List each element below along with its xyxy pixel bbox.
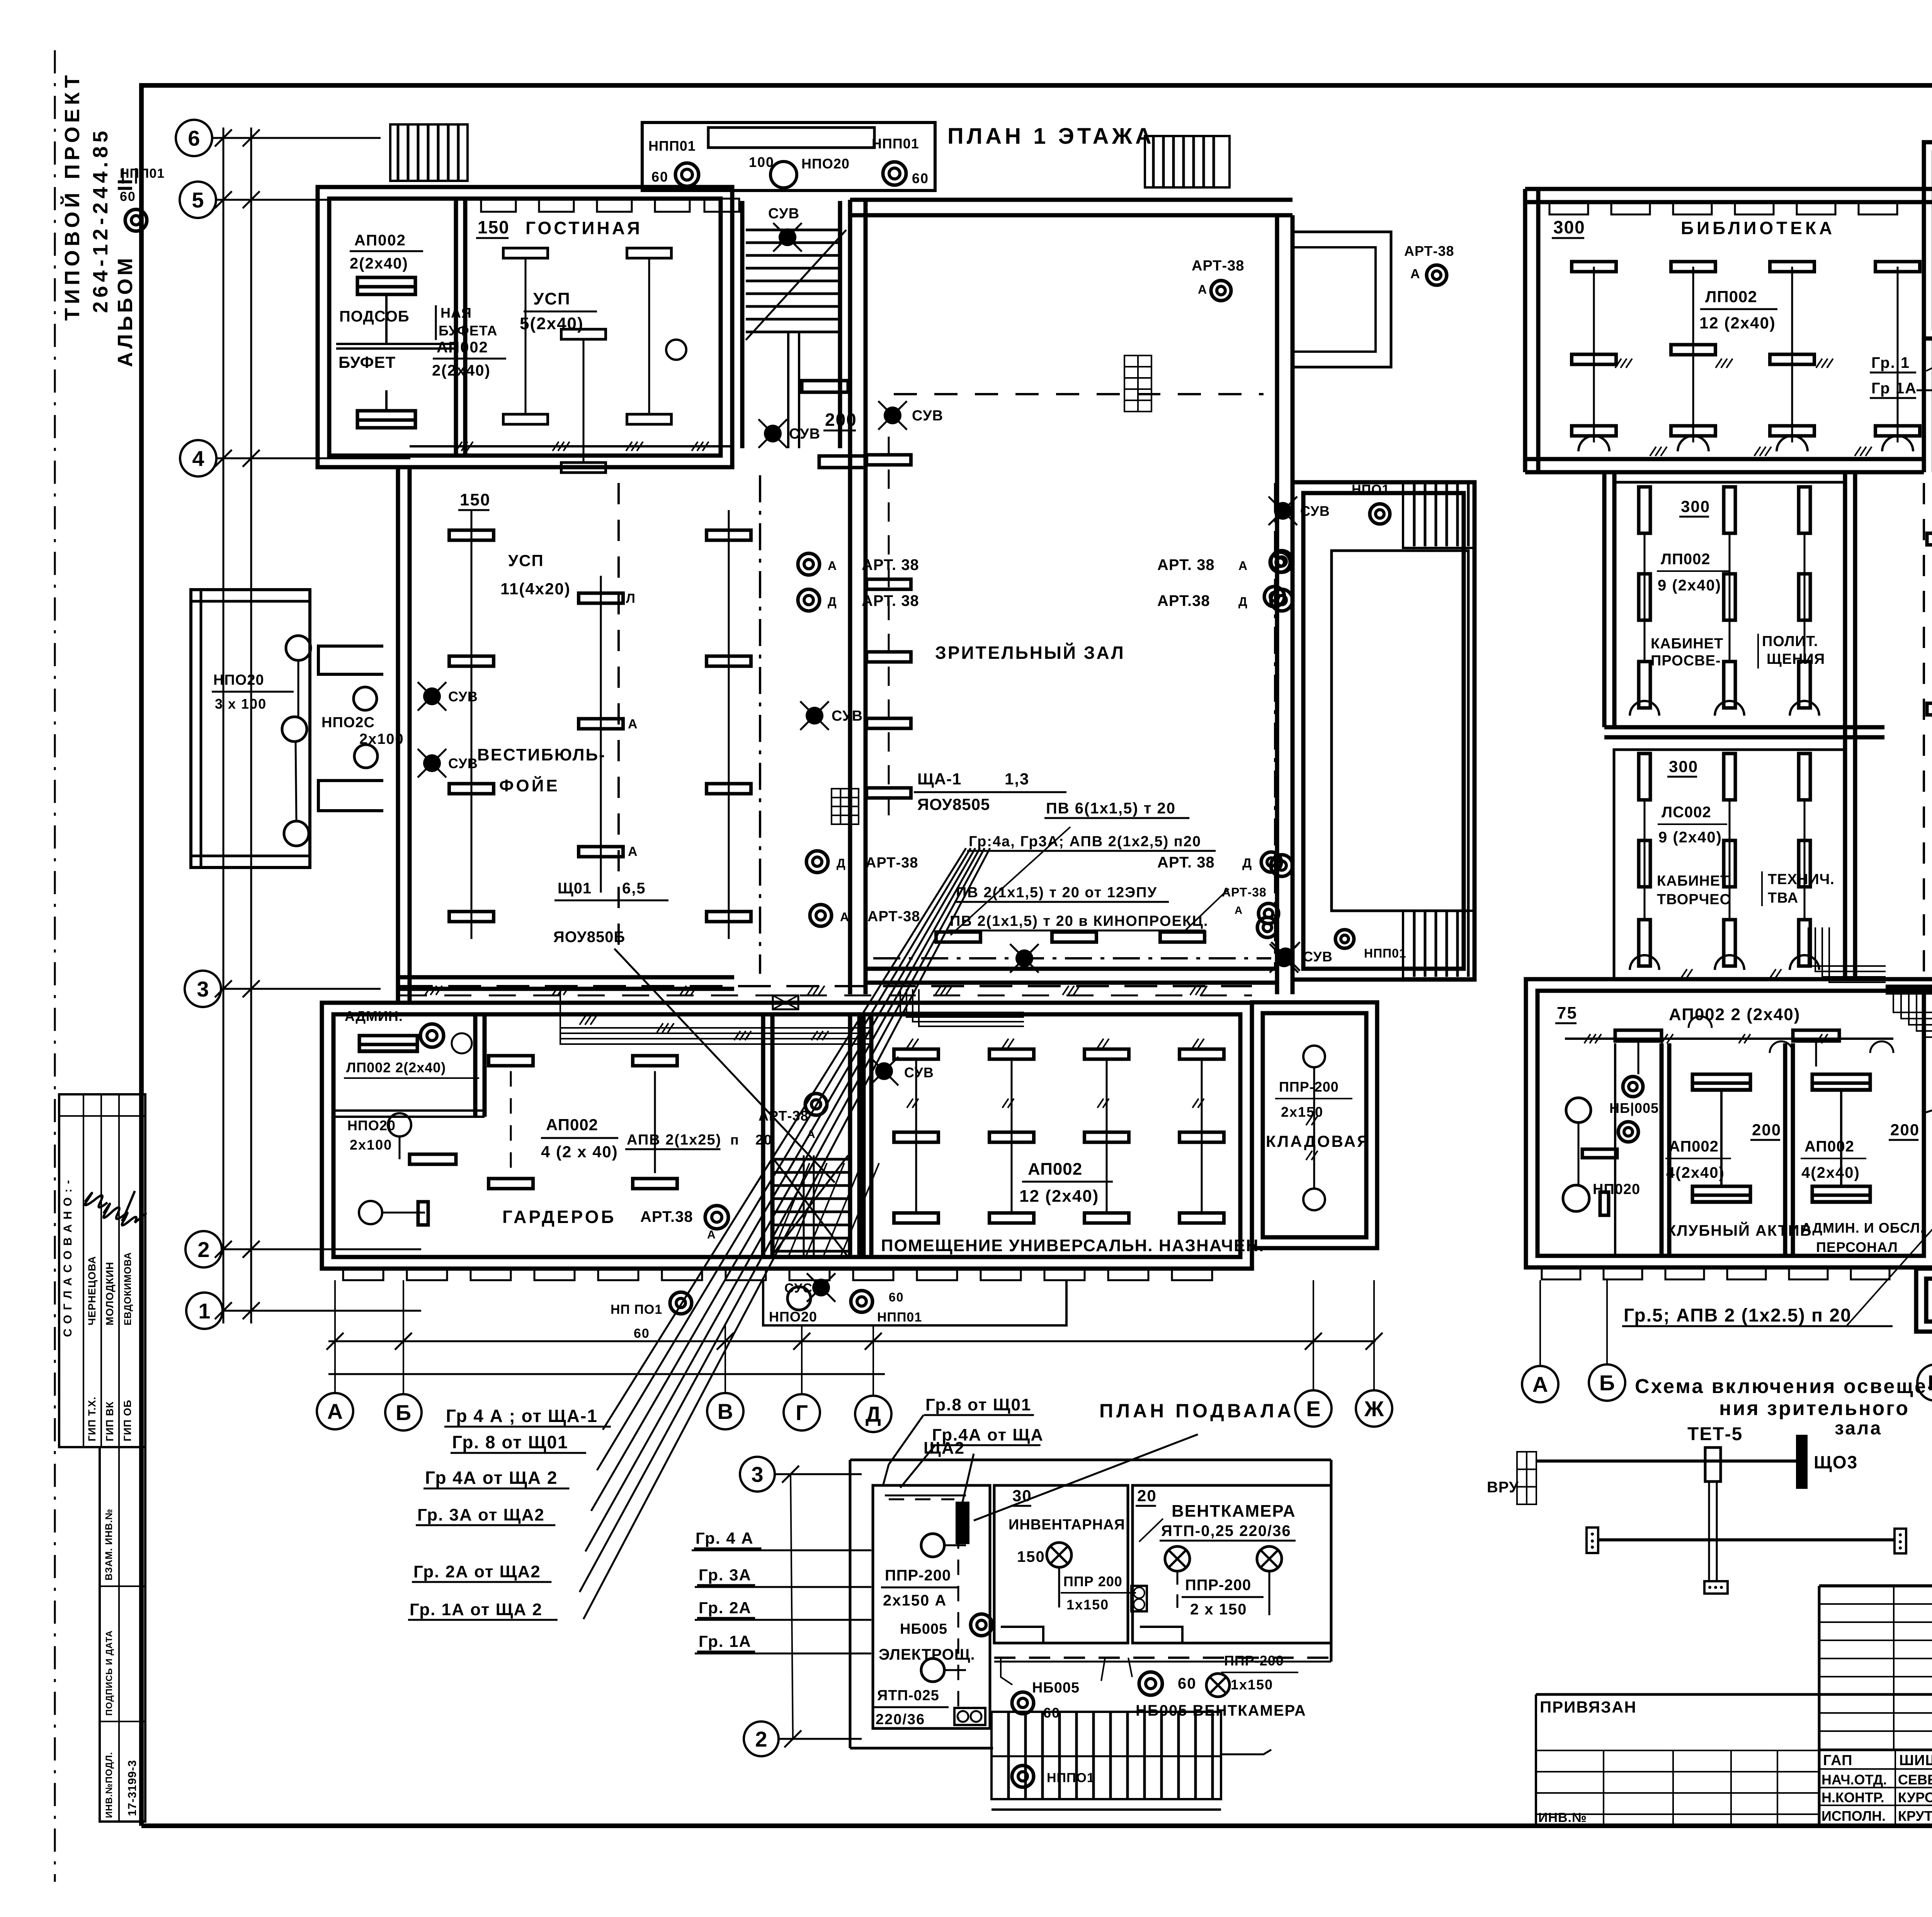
- svg-text:НАЧ.ОТД.: НАЧ.ОТД.: [1821, 1772, 1887, 1788]
- svg-text:п: п: [730, 1132, 740, 1148]
- svg-text:Гр:4а, Гр3А; АПВ 2(1х2,5) п20: Гр:4а, Гр3А; АПВ 2(1х2,5) п20: [969, 833, 1201, 850]
- кабинет просвещения fixtures vertical bars: [1639, 487, 1650, 533]
- signature scribbles: [85, 1193, 107, 1207]
- axis bubble А plan1: [317, 1393, 353, 1429]
- svg-text:СУВ: СУВ: [768, 206, 799, 222]
- svg-text:Б: Б: [396, 1400, 411, 1425]
- svg-text:АП002: АП002: [354, 232, 406, 249]
- axis bubble Б plan1: [385, 1394, 422, 1431]
- bottom wall tabs plan2 block: [1542, 1269, 1580, 1279]
- svg-text:АП002: АП002: [437, 339, 488, 356]
- svg-text:А: А: [707, 1228, 716, 1241]
- svg-text:200: 200: [825, 410, 857, 430]
- plan1 bottom dimension lines: [328, 1340, 1376, 1342]
- block B: vestibule left outer wall: [396, 467, 400, 1003]
- fixtures along auditorium left wall: [867, 455, 911, 465]
- svg-text:Гр. 3А от ЩА2: Гр. 3А от ЩА2: [417, 1505, 545, 1524]
- room инвентарная: [994, 1485, 1128, 1643]
- block D: top stair walls: [730, 201, 735, 448]
- svg-text:ТВА: ТВА: [1768, 890, 1798, 906]
- panel grid symbol right-top: [1124, 356, 1151, 412]
- niche jog upper: [318, 646, 383, 674]
- svg-text:ТВОРЧЕС: ТВОРЧЕС: [1657, 891, 1731, 908]
- svg-text:Гр. 1: Гр. 1: [1871, 354, 1910, 371]
- svg-text:Схема включения освеще-: Схема включения освеще-: [1635, 1375, 1932, 1398]
- callout diagonals to basement: [883, 1415, 923, 1486]
- svg-text:А: А: [1238, 559, 1248, 573]
- drawing frame: [141, 85, 1932, 448]
- svg-text:АЛЬБОМ: АЛЬБОМ: [114, 255, 137, 367]
- corridor plan2 dashed + fixtures: [1923, 483, 1925, 974]
- svg-text:КРУТОВА: КРУТОВА: [1898, 1808, 1932, 1824]
- svg-text:Гр. 8 от Щ01: Гр. 8 от Щ01: [452, 1432, 568, 1452]
- svg-text:ВРУ: ВРУ: [1487, 1479, 1519, 1496]
- axis bubble 1: [186, 1293, 223, 1329]
- svg-text:60: 60: [120, 189, 136, 204]
- partition гардероб right / stair: [761, 1014, 765, 1257]
- left terrace at vestibule: [191, 590, 310, 867]
- svg-text:100: 100: [749, 154, 774, 170]
- svg-text:НП ПО1: НП ПО1: [611, 1302, 662, 1317]
- svg-text:НПО2С: НПО2С: [321, 714, 375, 731]
- svg-text:3: 3: [197, 977, 209, 1001]
- labels АРТ.38 left lower pair: [806, 851, 828, 873]
- svg-text:ЩЕНИЯ: ЩЕНИЯ: [1767, 651, 1825, 667]
- библиотека wall tabs: [1549, 202, 1588, 214]
- room электрощитовая: [873, 1485, 990, 1728]
- schema end panels: [1587, 1527, 1598, 1553]
- svg-text:АРТ. 38: АРТ. 38: [862, 592, 919, 609]
- right wing porch bottom hatch: [1403, 911, 1475, 978]
- basement corridor line: [994, 1657, 1331, 1659]
- stair bottom center: [771, 1158, 848, 1161]
- svg-text:5: 5: [192, 188, 204, 212]
- wiring meander near stair: [900, 989, 1024, 1012]
- svg-text:ПРИВЯЗАН: ПРИВЯЗАН: [1540, 1698, 1637, 1716]
- svg-text:150: 150: [478, 217, 510, 237]
- svg-text:ЯТП-0,25 220/36: ЯТП-0,25 220/36: [1161, 1522, 1291, 1539]
- harness from auditorium right wall to plan2: [1808, 927, 1886, 966]
- svg-text:НПО20: НПО20: [769, 1309, 817, 1325]
- stair diagonal hatch: [771, 1163, 810, 1257]
- svg-text:9 (2х40): 9 (2х40): [1658, 829, 1722, 846]
- basement axis bubble 2: [744, 1721, 779, 1756]
- svg-text:ГИП Т.Х.: ГИП Т.Х.: [86, 1397, 98, 1441]
- svg-text:ППР 200: ППР 200: [1063, 1573, 1122, 1589]
- СУВ dot top center: [884, 407, 901, 424]
- bottom entrance canopy: [763, 1280, 1066, 1325]
- svg-text:СУВ: СУВ: [1300, 503, 1330, 519]
- sig table small rows: [1819, 1603, 1932, 1605]
- svg-text:17-3199-3: 17-3199-3: [126, 1760, 139, 1816]
- axis bubble А plan2: [1522, 1366, 1558, 1402]
- привязан grid: [1536, 1750, 1819, 1751]
- svg-text:БУФЕТ: БУФЕТ: [338, 353, 396, 371]
- svg-text:2х100: 2х100: [359, 731, 404, 747]
- кладовая annex walls: [1252, 1002, 1377, 1248]
- svg-text:Гр.4А от ЩА: Гр.4А от ЩА: [932, 1425, 1044, 1444]
- svg-text:20: 20: [1137, 1487, 1157, 1505]
- svg-text:1: 1: [198, 1299, 210, 1323]
- svg-text:ГИП ВК: ГИП ВК: [104, 1401, 116, 1441]
- svg-text:СУВ: СУВ: [912, 408, 943, 424]
- svg-text:ния зрительного: ния зрительного: [1719, 1397, 1910, 1420]
- partition буфет|гостиная: [454, 199, 458, 456]
- dumbbells клубный актив: [1692, 1074, 1750, 1090]
- svg-text:Гр.5; АПВ 2 (1х2.5) п 20: Гр.5; АПВ 2 (1х2.5) п 20: [1624, 1305, 1852, 1326]
- кабинет просвещения walls: [1614, 482, 1845, 727]
- vestibule dashed route: [617, 483, 620, 958]
- svg-text:АРТ. 38: АРТ. 38: [862, 556, 919, 573]
- svg-text:Гр. 2А: Гр. 2А: [699, 1599, 752, 1617]
- svg-text:200: 200: [1752, 1121, 1781, 1139]
- svg-text:12 (2х40): 12 (2х40): [1699, 314, 1776, 332]
- svg-text:2 х 150: 2 х 150: [1190, 1601, 1247, 1618]
- svg-text:ГАРДЕРОБ: ГАРДЕРОБ: [502, 1207, 616, 1227]
- svg-text:СУВ: СУВ: [1303, 949, 1333, 964]
- panel bars ЩО2 ЩО3 hatched: [1886, 985, 1932, 995]
- СУВ dot top stair: [779, 228, 796, 246]
- svg-text:220/36: 220/36: [876, 1711, 925, 1728]
- svg-text:ЕВДОКИМОВА: ЕВДОКИМОВА: [122, 1252, 133, 1325]
- svg-text:НПП01: НПП01: [877, 1310, 922, 1325]
- diagonal feeder bundle: [603, 848, 966, 1430]
- svg-text:3 х 100: 3 х 100: [215, 696, 267, 712]
- svg-text:ПОДПИСЬ И ДАТА: ПОДПИСЬ И ДАТА: [104, 1630, 114, 1716]
- basement dashed route in электрощ: [885, 1495, 966, 1497]
- svg-text:АП002 2 (2х40): АП002 2 (2х40): [1669, 1005, 1800, 1024]
- fixture bars near stair: [802, 381, 848, 392]
- svg-text:Д: Д: [866, 1402, 881, 1426]
- stair annex bottom: [1916, 1269, 1932, 1332]
- svg-text:СУВ: СУВ: [448, 689, 478, 704]
- axis bubble Д plan1: [855, 1396, 891, 1432]
- svg-text:АП002: АП002: [546, 1116, 598, 1134]
- axis dimension verticals: [223, 128, 224, 1323]
- svg-text:5(2х40): 5(2х40): [520, 314, 584, 333]
- svg-text:ПОДСОБ: ПОДСОБ: [339, 308, 410, 325]
- svg-text:АРТ.38: АРТ.38: [640, 1208, 693, 1225]
- panel ЩОЗ filled bar: [1796, 1435, 1808, 1489]
- axis bubble 5: [180, 182, 216, 218]
- wall tabs гостиная top: [481, 199, 516, 212]
- svg-text:4 (2 х 40): 4 (2 х 40): [541, 1143, 618, 1161]
- axis bubble В plan1: [707, 1393, 743, 1429]
- wiring knot under vestibule: [560, 985, 869, 1028]
- svg-text:ЩА-1: ЩА-1: [917, 770, 961, 788]
- stair hatch top: [746, 229, 838, 231]
- svg-text:ПВ 2(1х1,5) т 20 от 12ЭПУ: ПВ 2(1х1,5) т 20 от 12ЭПУ: [956, 885, 1157, 901]
- электрощ lamps and texts: [921, 1534, 944, 1557]
- fixtures гостиная: 3 dumbbells: [503, 248, 548, 258]
- svg-text:С О Г Л А С О В А Н О : -: С О Г Л А С О В А Н О : -: [61, 1179, 74, 1337]
- svg-text:300: 300: [1681, 497, 1710, 515]
- terrace lamps НПО20 column: [286, 636, 311, 660]
- svg-text:75: 75: [1557, 1004, 1577, 1022]
- wiring harness between ЩО panels and kinoproj: [1893, 993, 1932, 1012]
- svg-text:А: А: [628, 717, 638, 731]
- svg-text:Гр 4 А ; от ЩА-1: Гр 4 А ; от ЩА-1: [446, 1406, 598, 1426]
- svg-text:Гр 4А от ЩА 2: Гр 4А от ЩА 2: [425, 1468, 558, 1488]
- библиотека fixtures 4 columns: [1572, 262, 1616, 272]
- svg-text:АРТ-38: АРТ-38: [759, 1108, 809, 1124]
- кладовая lamps: [1303, 1046, 1325, 1067]
- svg-text:150: 150: [460, 490, 490, 509]
- svg-text:ИНВ.№: ИНВ.№: [1538, 1810, 1587, 1825]
- plan1 entrance canopy top: [642, 122, 935, 191]
- svg-text:В: В: [718, 1399, 733, 1424]
- svg-text:А: А: [1235, 904, 1243, 916]
- svg-text:Щ01: Щ01: [558, 880, 592, 897]
- svg-text:НППО1: НППО1: [1047, 1771, 1095, 1785]
- svg-text:УСП: УСП: [533, 289, 571, 308]
- schema second bus: [1598, 1538, 1895, 1541]
- svg-text:ЯОУ850Б: ЯОУ850Б: [553, 929, 625, 946]
- svg-text:ИНВЕНТАРНАЯ: ИНВЕНТАРНАЯ: [1009, 1517, 1125, 1533]
- svg-text:АП002: АП002: [1804, 1138, 1854, 1155]
- svg-text:ГАП: ГАП: [1823, 1752, 1852, 1769]
- svg-text:АРТ-38: АРТ-38: [1222, 885, 1267, 899]
- fixtures bottom-left block: [1615, 1030, 1662, 1041]
- svg-text:60: 60: [889, 1290, 904, 1304]
- svg-text:НПО20: НПО20: [801, 156, 850, 172]
- svg-text:264-12-244.85: 264-12-244.85: [89, 127, 112, 313]
- title block outer lines: [1819, 1584, 1932, 1587]
- svg-text:А: А: [1532, 1372, 1548, 1397]
- svg-text:2х100: 2х100: [350, 1137, 392, 1153]
- plan2 bottom-left block walls: [1526, 979, 1932, 1267]
- svg-text:ЯОУ8505: ЯОУ8505: [917, 795, 990, 813]
- right wing inner room: [1332, 551, 1468, 911]
- svg-text:6,5: 6,5: [622, 880, 646, 897]
- svg-text:300: 300: [1669, 757, 1698, 776]
- fixtures vestibule: 3 columns of T-bars: [449, 530, 494, 540]
- svg-text:СУВ: СУВ: [448, 755, 478, 771]
- svg-text:ЛП002: ЛП002: [1705, 287, 1757, 306]
- corridor lamps row: [1139, 1672, 1162, 1695]
- svg-text:ВЕСТИБЮЛЬ-: ВЕСТИБЮЛЬ-: [477, 745, 606, 764]
- svg-text:ПВ 2(1х1,5) т 20 в КИНОПРОЕКЦ.: ПВ 2(1х1,5) т 20 в КИНОПРОЕКЦ.: [950, 913, 1208, 929]
- СУВ dot auditorium center-left: [806, 707, 823, 725]
- svg-text:АРТ-38: АРТ-38: [1192, 258, 1244, 274]
- partition подсобная: [336, 343, 456, 345]
- svg-text:60: 60: [1178, 1675, 1197, 1692]
- svg-text:20: 20: [755, 1132, 772, 1148]
- svg-text:30: 30: [1012, 1487, 1032, 1505]
- svg-text:А: А: [327, 1399, 343, 1424]
- svg-text:НАЯ: НАЯ: [440, 305, 472, 321]
- svg-text:Гр.8 от Щ01: Гр.8 от Щ01: [925, 1395, 1031, 1414]
- sig table column: [1893, 1586, 1895, 1750]
- svg-text:КЛУБНЫЙ АКТИВ: КЛУБНЫЙ АКТИВ: [1667, 1221, 1812, 1239]
- svg-text:9 (2х40): 9 (2х40): [1658, 577, 1721, 594]
- svg-text:СУВ: СУВ: [832, 708, 863, 724]
- svg-text:Н.КОНТР.: Н.КОНТР.: [1821, 1789, 1884, 1805]
- svg-text:2х150 А: 2х150 А: [883, 1592, 947, 1609]
- svg-text:БУФЕТА: БУФЕТА: [439, 323, 497, 338]
- axis bubble Б plan2: [1589, 1364, 1625, 1401]
- svg-text:ЧЕРНЕЦОВА: ЧЕРНЕЦОВА: [86, 1256, 98, 1325]
- svg-text:КУРОЧКИН: КУРОЧКИН: [1898, 1789, 1932, 1805]
- svg-text:ППР-200: ППР-200: [1279, 1079, 1339, 1095]
- vestibule bottom wall: [398, 975, 734, 980]
- svg-text:АРТ. 38: АРТ. 38: [1157, 556, 1215, 573]
- svg-text:ЛП002 2(2х40): ЛП002 2(2х40): [346, 1060, 446, 1075]
- svg-text:2(2х40): 2(2х40): [432, 362, 491, 379]
- svg-text:4: 4: [192, 446, 204, 471]
- svg-text:БИБЛИОТЕКА: БИБЛИОТЕКА: [1681, 218, 1835, 238]
- СУВ dot universal room corner: [875, 1062, 893, 1080]
- axis bubble Ж plan1: [1356, 1390, 1392, 1427]
- svg-text:ГОСТИНАЯ: ГОСТИНАЯ: [526, 218, 642, 238]
- кабинет творчества walls: [1614, 750, 1845, 979]
- lamps НПО2С pair: [354, 687, 377, 710]
- svg-text:60: 60: [912, 170, 929, 186]
- svg-text:60: 60: [634, 1326, 650, 1341]
- ЩА2 panel symbol: [956, 1502, 969, 1544]
- svg-text:150: 150: [1017, 1548, 1045, 1565]
- СУВ dots on stage line: [1015, 949, 1033, 967]
- plan1 top-right porch hatch: [1145, 136, 1230, 187]
- svg-text:Гр. 1А от ЩА 2: Гр. 1А от ЩА 2: [410, 1600, 543, 1619]
- библиотека outer walls: [1525, 187, 1932, 191]
- svg-text:Д: Д: [828, 595, 837, 609]
- panel ЩА-1 grid symbol: [832, 789, 859, 824]
- svg-text:4(2х40): 4(2х40): [1801, 1164, 1860, 1181]
- svg-text:АРТ-38: АРТ-38: [866, 855, 918, 871]
- svg-text:ЛС002: ЛС002: [1662, 804, 1711, 821]
- room венткамера walls: [1133, 1485, 1331, 1643]
- svg-text:НПП01: НПП01: [120, 166, 165, 181]
- basement wire stubs: [1001, 1658, 1012, 1685]
- svg-text:ПОМЕЩЕНИЕ УНИВЕРСАЛЬН. НАЗНАЧЕ: ПОМЕЩЕНИЕ УНИВЕРСАЛЬН. НАЗНАЧЕН.: [881, 1236, 1264, 1255]
- svg-text:ЩО3: ЩО3: [1814, 1452, 1858, 1472]
- svg-text:А: А: [828, 559, 837, 573]
- svg-text:КЛАДОВАЯ: КЛАДОВАЯ: [1266, 1132, 1370, 1150]
- basement axis bubble 3: [740, 1457, 775, 1492]
- svg-text:ФОЙЕ: ФОЙЕ: [499, 776, 560, 795]
- lamps right wing dash line: [1270, 552, 1290, 572]
- svg-text:Д: Д: [837, 856, 846, 870]
- svg-text:ПВ 6(1х1,5) т 20: ПВ 6(1х1,5) т 20: [1046, 800, 1176, 817]
- svg-text:НПО20: НПО20: [213, 672, 264, 688]
- svg-text:1х150: 1х150: [1066, 1597, 1109, 1613]
- svg-text:АРТ-38: АРТ-38: [1404, 243, 1454, 259]
- svg-text:ПЕРСОНАЛ: ПЕРСОНАЛ: [1816, 1239, 1898, 1255]
- junction box with X: [773, 995, 798, 1009]
- left stamp table - lower block: [100, 1447, 145, 1822]
- svg-text:НПО1: НПО1: [1352, 482, 1389, 497]
- dash-dot line right wing: [1274, 483, 1276, 968]
- axis bubble В plan2: [1917, 1364, 1932, 1401]
- stair lower walls: [1922, 338, 1926, 472]
- svg-text:ПЛАН 1 ЭТАЖА: ПЛАН 1 ЭТАЖА: [947, 124, 1155, 149]
- dash-dot line фойе|зал: [759, 475, 761, 974]
- block E: right wing walls: [1293, 482, 1475, 980]
- svg-text:ЛП002: ЛП002: [1661, 551, 1711, 568]
- stair block plan2 top: [1924, 142, 1932, 338]
- svg-text:Д: Д: [1238, 595, 1248, 609]
- fixtures near stage line: [936, 932, 981, 942]
- partition universal room left: [862, 1014, 866, 1257]
- svg-text:1,3: 1,3: [1005, 770, 1029, 788]
- universal room fixtures: 4 columns of 3 bars: [894, 1049, 939, 1059]
- svg-text:ШИШКОВ: ШИШКОВ: [1899, 1752, 1932, 1769]
- svg-text:Гр. 3А: Гр. 3А: [699, 1566, 752, 1584]
- svg-text:Ж: Ж: [1364, 1397, 1384, 1421]
- svg-text:АПВ 2(1х25): АПВ 2(1х25): [627, 1132, 721, 1148]
- plan2 bottom axis leaders: [1539, 1280, 1541, 1366]
- leader lines to kinoproj labels: [951, 827, 1070, 935]
- svg-text:ЗРИТЕЛЬНЫЙ ЗАЛ: ЗРИТЕЛЬНЫЙ ЗАЛ: [935, 643, 1125, 663]
- svg-text:ППР-200: ППР-200: [1185, 1577, 1251, 1594]
- svg-text:АДМИН.: АДМИН.: [345, 1008, 403, 1024]
- block A: буфет-гостиная outer walls: [318, 187, 732, 467]
- svg-text:АРТ. 38: АРТ. 38: [1157, 854, 1215, 871]
- basement outer walls: [850, 1459, 1331, 1461]
- bottom-left block partitions: [1660, 1043, 1664, 1257]
- leader from Щ01 to stair panel: [614, 949, 835, 1182]
- svg-text:СЕВЕРИНОВ: СЕВЕРИНОВ: [1898, 1772, 1932, 1788]
- svg-text:6: 6: [188, 126, 200, 150]
- svg-text:11(4х20): 11(4х20): [500, 580, 571, 598]
- svg-text:НПП01: НПП01: [1364, 946, 1406, 960]
- right wing porch top hatch: [1403, 482, 1475, 548]
- svg-text:АРТ.38: АРТ.38: [1157, 592, 1210, 609]
- partition админ room: [473, 1014, 478, 1117]
- basement stair: [992, 1712, 1221, 1799]
- гардероб fixtures: 2 dashed dumbbells: [489, 1056, 533, 1066]
- svg-text:ТЕТ-5: ТЕТ-5: [1687, 1424, 1743, 1444]
- СУВ dot mid stair: [764, 425, 782, 442]
- svg-text:ППР-200: ППР-200: [1224, 1653, 1284, 1669]
- label НПО20 bottom: [787, 1287, 811, 1310]
- axis bubble Г plan1: [784, 1394, 820, 1431]
- svg-text:12 (2х40): 12 (2х40): [1019, 1187, 1099, 1206]
- svg-text:зала: зала: [1835, 1418, 1882, 1439]
- transformer ТЕТ-5 symbol: [1705, 1448, 1721, 1482]
- svg-text:А: А: [628, 844, 638, 859]
- svg-text:ПРОСВЕ-: ПРОСВЕ-: [1651, 653, 1721, 669]
- svg-text:Л: Л: [626, 591, 636, 606]
- svg-text:ГИП ОБ: ГИП ОБ: [122, 1400, 133, 1441]
- svg-text:ТИПОВОЙ ПРОЕКТ: ТИПОВОЙ ПРОЕКТ: [60, 71, 84, 321]
- второй этаж corridor walls below библиотека: [1602, 472, 1607, 727]
- dashed corridor line top: [894, 393, 1264, 395]
- schema bus ВРУ to ЩОЗ: [1536, 1459, 1796, 1463]
- svg-text:Гр. 2А от ЩА2: Гр. 2А от ЩА2: [413, 1562, 541, 1581]
- svg-text:300: 300: [1553, 217, 1585, 237]
- svg-text:3: 3: [751, 1462, 763, 1487]
- auditorium bottom double wall: [866, 967, 1277, 971]
- svg-text:ИСПОЛН.: ИСПОЛН.: [1821, 1808, 1886, 1824]
- svg-text:АДМИН. И ОБСЛ.: АДМИН. И ОБСЛ.: [1801, 1220, 1925, 1236]
- svg-text:2: 2: [755, 1727, 767, 1751]
- svg-text:АРТ-38: АРТ-38: [867, 908, 920, 925]
- corridor wiring lines above bottom block: [400, 985, 1252, 987]
- plan1 top-left porch hatch: [390, 124, 468, 181]
- svg-text:ВЕНТКАМЕРА: ВЕНТКАМЕРА: [1172, 1502, 1296, 1521]
- left stamp table - СОГЛАСОВАНО block: [59, 1094, 145, 1447]
- svg-text:МОЛОДКИН: МОЛОДКИН: [104, 1262, 116, 1325]
- svg-text:200: 200: [1890, 1121, 1920, 1139]
- svg-text:4(2х40): 4(2х40): [1666, 1164, 1725, 1181]
- svg-text:А: А: [1410, 267, 1421, 281]
- svg-text:Г: Г: [796, 1400, 808, 1425]
- svg-text:АП002: АП002: [1669, 1138, 1719, 1155]
- svg-text:2(2х40): 2(2х40): [350, 255, 408, 272]
- fixtures буфет: double bars: [357, 277, 415, 294]
